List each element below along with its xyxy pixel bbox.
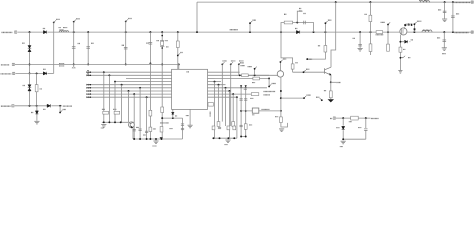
wire IC right pin row 4 (208, 81, 222, 83)
wire sub cap bottom (365, 130, 367, 139)
ground below yD (225, 140, 230, 143)
junction bus x=140.1 (139, 87, 141, 89)
wire short y=136.5 (241, 136, 246, 138)
diode D7 label (31, 112, 33, 114)
resistor R6 (291, 64, 294, 69)
resistor R5 label (318, 45, 320, 47)
junction x=36.6 wire3 (36, 72, 38, 74)
diode D6 series on wire4 (47, 104, 50, 107)
resistor R3 (176, 41, 179, 48)
ground below C10 (442, 48, 447, 51)
resistor R7 (329, 91, 332, 98)
junction yB x=115.0 (114, 121, 116, 123)
resistor R21 on row y=78.5 (215, 78, 270, 80)
junction x=245.7 y=136.5 (245, 136, 247, 138)
resistor R27 (227, 126, 230, 130)
wire IC right pin row 8 (208, 93, 252, 95)
capacitor C2 label (91, 42, 93, 44)
junction rail1 x=73.7 (73, 31, 75, 33)
test point TP14 (221, 61, 226, 65)
resistor R22 (244, 124, 247, 130)
diode D4 label (43, 68, 45, 70)
resistor R4 label (284, 13, 286, 15)
resistor R14 label (102, 108, 105, 110)
wire emitter node right (331, 81, 336, 83)
snubber branch label line1 (299, 8, 301, 10)
ground label subcircuit (340, 146, 343, 148)
capacitor C13 label (136, 126, 139, 128)
capacitor C11 label (456, 13, 459, 15)
net label subcircuit out (371, 118, 379, 120)
junction x=36.6 wire4 (36, 105, 38, 107)
junction x=280.9 y=110.9 (280, 110, 282, 112)
label VL_SH(+) (1, 105, 11, 107)
label VBAT(-) (1, 64, 9, 66)
wire vertical drop x=121.6 (121, 85, 123, 123)
junction yC x=146.6 (146, 138, 148, 140)
capacitor C10 (443, 40, 447, 42)
wire IC right pin row 7 (208, 90, 230, 92)
test point TP4 (177, 53, 183, 57)
junction rail1 x=325.4 (324, 31, 326, 33)
TVS D5 label (23, 85, 25, 87)
wire bus row 7 (87, 90, 172, 92)
test point TP8 on base wire (303, 69, 310, 73)
diode D3 label (295, 28, 297, 30)
inductor L2 label (419, 0, 421, 2)
junction x=88.2 wire2 (87, 63, 89, 65)
resonator X2 label (252, 114, 254, 116)
wire3 seg2 (48, 72, 54, 74)
resistor R6 label (295, 62, 297, 64)
test point TP2 (73, 19, 80, 23)
junction y75.3 x=254.6 (254, 74, 256, 76)
junction pin row x=229.4 (228, 90, 230, 92)
wire sub bottom y=139.2 (343, 138, 366, 140)
capacitor C3 (124, 47, 128, 49)
wire4 seg1 (15, 105, 48, 107)
power arrow at x=161 y=138 (160, 137, 163, 140)
resistor R10 (387, 44, 390, 51)
junction x=241.1 y=110.9 (240, 110, 242, 112)
resistor R21 label (252, 82, 255, 84)
junction y118 x=162.2 (161, 117, 163, 119)
diode D3 series on rail1 (296, 31, 299, 34)
wire vertical x=444.3 below rail (443, 32, 445, 48)
op-amp U1 main controller IC (172, 69, 208, 109)
wire vertical x=150.4 long drop (149, 63, 151, 139)
junction x=29.5 wire2 (29, 63, 31, 65)
ground below R7 (solid) (328, 99, 334, 102)
junction bus x=115.0 (114, 81, 116, 83)
ground below D7 (34, 121, 39, 124)
resistor R26 (212, 126, 215, 130)
capacitor C5 label (303, 13, 305, 15)
ground label yC (153, 145, 157, 147)
junction yC x=156 (155, 138, 157, 140)
wire IC bottom pin x=172.8 (172, 109, 174, 111)
resistor R21 body (253, 77, 260, 80)
junction x=178.8 wire2 IC drop (178, 63, 180, 65)
junction rail1 x=313.5 (313, 31, 315, 33)
transistor Q1 (325, 67, 331, 75)
label right of TP16 (241, 62, 244, 64)
junction sub x=343.2 (342, 117, 344, 119)
junction yB x=109.4 (108, 121, 110, 123)
junction rail1 x=444.3 (443, 31, 445, 33)
wire yD=138.2 (212, 137, 237, 139)
wire bus row 1 (87, 71, 172, 73)
test point TP5 below wire4 (59, 106, 66, 114)
junction x=125.7 wire2 (125, 63, 127, 65)
wire IC right pin row 5 (208, 84, 226, 86)
junction yD x=213.5 (213, 137, 215, 139)
resistor R24 (217, 122, 220, 127)
junction bus x=109.4 (108, 74, 110, 76)
wire y=118.1 subcircuit (336, 117, 370, 119)
label right of TP16 line2 (241, 65, 245, 67)
wire vertical drop x=146.6 (146, 97, 148, 139)
wire Q1 base (293, 69, 325, 72)
junction x=29.5 wire4 (29, 105, 31, 107)
wire vertical x=370.4 top to rail (369, 2, 371, 32)
ground subcircuit (341, 141, 346, 144)
test point TP15 (230, 61, 236, 65)
wire vertical TP15 drop (230, 64, 232, 126)
junction rail1 x=360.1 (359, 31, 361, 33)
capacitor C8 below gate node (399, 47, 402, 52)
junction yD x=219.5 (219, 137, 221, 139)
junction y118 x=172.8 (172, 117, 174, 119)
wire x=281 corner to R6 (281, 32, 293, 64)
ground label yB (101, 127, 104, 129)
label VL_BAT(-) (1, 73, 12, 75)
test point TP7 (325, 20, 332, 32)
test point TP6 (249, 20, 256, 32)
resistor R13 (160, 127, 163, 133)
junction Q1 emitter node (330, 81, 332, 83)
junction sub x=365.8 (365, 117, 367, 119)
capacitor C5 snubber (304, 21, 306, 25)
junction yD x=234.3 (233, 137, 235, 139)
junction pin row x=225.5 (225, 87, 227, 89)
junction rail1 x=250 (249, 31, 251, 33)
resistor R28 (233, 126, 236, 130)
junction yC x=140.1 (139, 138, 141, 140)
test point TP18 (268, 79, 276, 88)
wire rail1 seg1 (17, 31, 43, 33)
crystal freq label (165, 40, 167, 42)
wire stub gnd yC (155, 139, 157, 141)
resonator X2 (252, 108, 258, 113)
wire vertical x=245.7 (245, 88, 247, 137)
resistor R17 (242, 74, 249, 77)
wire vertical x=325.4 below rail (324, 32, 326, 56)
capacitor C15 label (143, 134, 146, 136)
junction top line x=335.7 (335, 1, 337, 3)
wire vertical x=150.4 (149, 32, 151, 63)
junction rail1 x=125.7 (125, 31, 127, 33)
capacitor C17 (181, 124, 184, 125)
diode D7 below wire4 (35, 111, 38, 114)
junction yC x=161.5 (161, 138, 163, 140)
ground below C12 (442, 19, 447, 22)
wire Q2 gate node below (400, 35, 410, 47)
resistor R15 (114, 111, 120, 114)
junction yB x=103.8 (103, 121, 105, 123)
junction rail1 x=29.5 (29, 31, 31, 33)
capacitor C12 (443, 11, 447, 13)
resistor R20 label (376, 34, 384, 36)
wire bus row 3 (126, 78, 172, 80)
TVS diode D5 at x=29.5 (28, 85, 31, 91)
ground label x=444.3 (442, 53, 446, 55)
junction yB x=120.7 (120, 121, 122, 123)
capacitor C2 (86, 47, 90, 49)
resistor R12 (161, 107, 164, 113)
label right of X2 (262, 108, 270, 110)
junction x=60.1 wire4 (59, 105, 61, 107)
inductor L1 value2 (60, 29, 64, 31)
inductor L1 value (63, 27, 67, 29)
input flag bus row 1 (87, 71, 90, 73)
junction bus x=121.6 (121, 84, 123, 86)
resistor R18 label (275, 116, 278, 118)
wire vertical x=452.9 top to rail (452, 2, 454, 32)
wire4 seg2 (51, 105, 62, 107)
wire vertical drop x=109.4 (108, 75, 110, 122)
wire vertical x=29.5 rail1 to wire3 (29, 32, 31, 73)
ground below yB (101, 125, 106, 128)
IC GND pin label (186, 115, 189, 117)
net label on rail1 (230, 29, 238, 31)
wire2 drop into IC top pin (178, 64, 180, 69)
resistor R8 label (365, 13, 367, 15)
input flag bus row 8 (87, 93, 90, 95)
wire y=118.1 (162, 117, 182, 119)
junction pin row x=218.5 (218, 84, 220, 86)
capacitor C18 (181, 128, 184, 129)
wire vertical x=444.6 below top line (444, 2, 446, 19)
ground x=400.4 (398, 71, 402, 74)
capacitor C21 label (249, 124, 252, 126)
wire riser rail to top line at x=197 (196, 2, 198, 32)
wire vertical x=36.9 below wire4 (36, 106, 38, 121)
wire D9 to y118 (172, 115, 174, 118)
wire IC right pin row 3 (208, 78, 215, 80)
wire snubber branch up (297, 11, 302, 22)
wire vertical x=214.5 down (214, 82, 216, 139)
wire vertical x=182.5 (182, 118, 184, 139)
capacitor C17 label (170, 128, 173, 130)
resistor R2 (35, 85, 38, 92)
diode D6 label (43, 108, 45, 110)
wire vertical x=177.8 rail1 to IC (177, 32, 179, 69)
net flag below x=73.7 (72, 64, 76, 68)
capacitor C15 (145, 131, 148, 132)
junction bus x=134.2 (133, 93, 135, 95)
junction crystal bottom (161, 47, 163, 49)
junction yC x=134.2 (133, 138, 135, 140)
junction bus x=146.6 (146, 96, 148, 98)
wire bus row 2 (87, 74, 172, 76)
resistor R7 label (324, 90, 326, 92)
wire sub diode bottom (342, 130, 344, 139)
resistor R2 label (40, 88, 42, 90)
connector VL_BAT(+) (15, 31, 17, 33)
wire yB=122.3 (102, 121, 129, 123)
wire vertical x=241.1 (240, 88, 242, 137)
resistor R16 label (153, 128, 156, 130)
capacitor C11 (451, 16, 455, 18)
IC U1 label (187, 71, 189, 73)
junction bus x=128.5 (128, 90, 130, 92)
diode D1 label (43, 28, 45, 30)
capacitor C13 (133, 130, 136, 131)
test point TP16 (238, 61, 243, 65)
junction x=245.7 y=110.9 (245, 110, 247, 112)
snubber loop wires (281, 23, 314, 33)
wire vertical drop x=128.5 (128, 91, 130, 122)
junction x=280.9 y=98.1 (280, 97, 282, 99)
junction rail1 x=370.5 (370, 31, 372, 33)
wire y=75.3 extension with R17 (248, 74, 277, 76)
junction yC x=150.4 (149, 138, 151, 140)
junction x=29.5 wire3 (29, 72, 31, 74)
net label top right (455, 1, 471, 3)
vertical pin name text (209, 111, 211, 116)
wire emitter to R7 (330, 82, 332, 91)
junction Q2 gate node (399, 41, 401, 43)
test point TP3 (125, 19, 132, 23)
capacitor C23 (218, 127, 221, 128)
capacitor C19 (240, 99, 243, 100)
diode D1 series on rail1 (43, 31, 46, 34)
capacitor C4 (149, 43, 153, 45)
net label wire4 end (63, 105, 72, 107)
junction rail1 x=88.2 (87, 31, 89, 33)
test point TP1 (53, 19, 60, 23)
diode D8 label (411, 39, 413, 41)
wire R18 bottom hook and ground (281, 123, 288, 128)
connector VL_SH(+) (12, 105, 14, 107)
capacitor C21 (240, 125, 243, 126)
junction sub bottom (342, 138, 344, 140)
junction yD x=228.4 (227, 137, 229, 139)
wire top output net (197, 1, 473, 3)
wire sub cap top (365, 118, 367, 128)
capacitor C12 label (438, 9, 441, 11)
junction rail1 x=197 (196, 31, 198, 33)
junction pin row x=233.2 (232, 93, 234, 95)
transistor Q3 (129, 122, 135, 128)
wire R7 to ground (330, 98, 332, 99)
wire vertical x=370.5 below rail (370, 32, 372, 55)
junction rail1 x=281 (280, 31, 282, 33)
wire vertical x=53.7 TP1 to wire3 (53, 23, 55, 74)
net label emitter (336, 82, 340, 84)
resistor R18 (280, 117, 283, 123)
wire bus row 6 (87, 87, 172, 89)
capacitor C10 label (437, 37, 440, 39)
capacitor C3 label (122, 44, 124, 46)
wire R18 top (280, 111, 282, 117)
input flag bus row 5 (87, 84, 90, 86)
wire feedback vertical x=334 top line to Q1 (331, 2, 336, 67)
junction rail1 x=452.9 (452, 31, 454, 33)
wire below C8 (399, 52, 401, 70)
resistor R23 body (251, 93, 258, 96)
wire yC=139 (133, 138, 183, 140)
capacitor C24 (364, 129, 367, 131)
wire vertical x=233.2 down (232, 94, 234, 122)
resistor R29 (351, 116, 359, 120)
resistor R25 (232, 122, 235, 127)
connector top right (471, 1, 473, 3)
wire vertical x=388 below rail (387, 32, 389, 44)
resistor R11 (149, 110, 152, 116)
input flag bus row 2 (87, 74, 90, 76)
wire vertical x=225.5 down (225, 88, 227, 126)
junction y78.5 x=269.1 (268, 78, 270, 80)
wire2 BAT- horizontal (15, 63, 179, 65)
bus label row1 (87, 70, 89, 72)
wire Q1 emitter down (330, 75, 332, 82)
wire vertical x=125.7 (125, 22, 127, 65)
junction pin row x=214.5 (214, 81, 216, 83)
net label rail right (455, 32, 469, 34)
junction top line x=444.6 (444, 1, 446, 3)
wire vertical x=218.5 down (218, 85, 220, 122)
net label row y=94.1 (264, 94, 271, 96)
capacitor C14 (139, 129, 142, 130)
wire rail1 seg2 (48, 31, 297, 33)
capacitor C1 (72, 47, 76, 49)
test point TP9 (316, 97, 323, 101)
ground below yC (153, 141, 158, 144)
TVS D2 label (22, 42, 24, 44)
ground label yD (225, 144, 228, 146)
test point TP10 (381, 22, 391, 32)
label VL_BAT(+) (2, 31, 13, 33)
ground below R18 (279, 129, 284, 132)
inductor L3 on rail1 (422, 30, 432, 32)
junction rail1 x=414.4 (413, 31, 415, 33)
wire vertical x=29.5 wire3 to wire4 (29, 73, 31, 105)
resistor R23 label (250, 97, 253, 99)
resistor R20 series on rail1 (376, 31, 383, 34)
wire bus row 5 (87, 84, 172, 86)
ground x=190.1 (188, 125, 193, 128)
test point TP11 (414, 21, 422, 32)
wire bus row 9 (87, 96, 172, 98)
junction rail1 x=150.4 (149, 31, 151, 33)
label near x=161 (160, 122, 169, 124)
junction snubber x=297.3 (296, 22, 298, 24)
capacitor C20 (244, 99, 247, 100)
wire y=110.9 (241, 110, 281, 112)
input flag bus row 6 (87, 87, 90, 89)
wire vertical drop x=140.1 (139, 88, 141, 139)
wire sub diode top (342, 118, 344, 126)
resistor R5 (324, 46, 327, 53)
capacitor C24 label (358, 127, 361, 129)
resistor R9 (369, 44, 372, 52)
resistor R8 (369, 15, 372, 21)
wire U3 stub up with arrow (280, 59, 287, 71)
wire IC bottom pin x=190.1 (189, 109, 191, 125)
capacitor C1 label (78, 43, 80, 45)
